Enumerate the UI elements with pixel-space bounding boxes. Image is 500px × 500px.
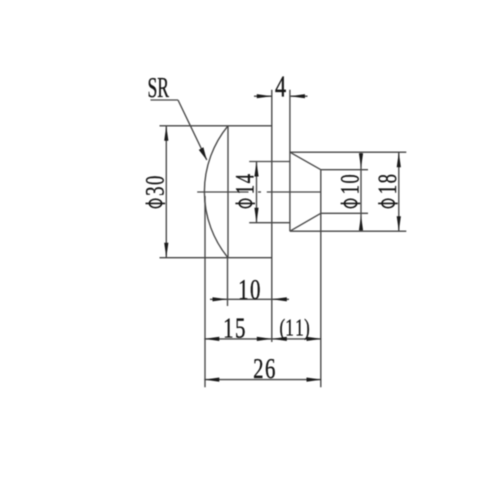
svg-text:11: 11	[285, 314, 305, 342]
(11) label	[285, 314, 305, 342]
4 dim line right	[290, 95, 308, 97]
SR label	[148, 73, 170, 104]
svg-text:14: 14	[230, 173, 259, 195]
phi30 dimension line	[165, 126, 167, 258]
10 label	[238, 274, 262, 306]
15 label	[223, 312, 247, 344]
hole corner edge + ext for 11/26 dims	[320, 170, 322, 388]
svg-text:18: 18	[373, 173, 402, 195]
dome tangent edge line	[227, 126, 229, 258]
svg-text:4: 4	[275, 69, 287, 103]
SR leader slant	[178, 100, 207, 160]
10 dim arrow pointing right	[213, 297, 228, 301]
phi30 arrow up	[164, 126, 168, 141]
apex extension line for 15/26 dims	[204, 196, 206, 387]
hole bottom edge + phi10 extension	[321, 212, 368, 214]
phi14 arrow down	[254, 208, 258, 223]
svg-text:10: 10	[238, 274, 262, 306]
cap edge extension for 10 dim	[227, 258, 229, 306]
phi14 label	[230, 173, 259, 208]
phi18 dimension line	[398, 152, 400, 231]
svg-text:26: 26	[253, 353, 277, 385]
10 dim arrow pointing left	[272, 297, 287, 301]
dome spherical arc	[204, 126, 228, 258]
26 dim line	[204, 379, 321, 381]
svg-text:10: 10	[336, 173, 365, 195]
body bottom edge + phi18 extension	[290, 230, 406, 232]
neck bottom edge + phi14 extension	[249, 222, 290, 224]
phi30 arrow down	[164, 243, 168, 258]
phi18 label	[373, 173, 402, 208]
26 label	[253, 353, 277, 385]
26 arrow left	[204, 378, 219, 382]
phi30 label	[141, 174, 170, 207]
15 arrow right	[257, 337, 272, 341]
svg-text:30: 30	[141, 174, 170, 196]
body top edge + phi18 extension	[290, 151, 406, 153]
phi18 arrow up	[397, 152, 401, 167]
SR leader horizontal	[151, 99, 179, 101]
svg-text:15: 15	[223, 312, 247, 344]
11 arrow right	[307, 337, 322, 341]
4 dim arrow right	[290, 94, 305, 98]
centerline dot	[258, 191, 261, 193]
cap top edge + phi30 top extension	[160, 125, 272, 127]
cap right face + ext for 4 and 10 dims	[271, 90, 273, 342]
hole top edge + phi10 extension	[321, 169, 368, 171]
4 dim line left	[254, 95, 272, 97]
phi10 arrow up at bottom	[359, 215, 363, 230]
26 arrow right	[307, 378, 322, 382]
15 and 11 dim line	[204, 338, 321, 340]
phi14 arrow up	[254, 162, 258, 177]
phi14 dimension line	[256, 162, 258, 223]
4 label	[275, 69, 287, 103]
10 dim line	[210, 298, 289, 300]
svg-text:(: (	[279, 315, 285, 340]
svg-text:): )	[304, 315, 310, 340]
phi18 arrow down	[397, 216, 401, 231]
countersink taper bottom	[290, 213, 321, 231]
4 dim arrow left	[257, 94, 272, 98]
SR leader arrowhead	[199, 147, 207, 160]
centerline dash 1	[197, 191, 248, 193]
neck top edge + phi14 extension	[249, 161, 290, 163]
centerline dash 2	[267, 191, 321, 193]
body left face + ext for 4 dim	[289, 90, 291, 232]
15 arrow left	[204, 337, 219, 341]
countersink taper top	[290, 152, 321, 170]
svg-text:SR: SR	[148, 73, 170, 104]
cap bottom edge + phi30 bottom extension	[160, 257, 272, 259]
phi10 dimension line	[360, 153, 362, 231]
phi10 arrow down at top	[359, 153, 363, 168]
phi10 label	[336, 173, 365, 208]
11 arrow left	[272, 337, 287, 341]
